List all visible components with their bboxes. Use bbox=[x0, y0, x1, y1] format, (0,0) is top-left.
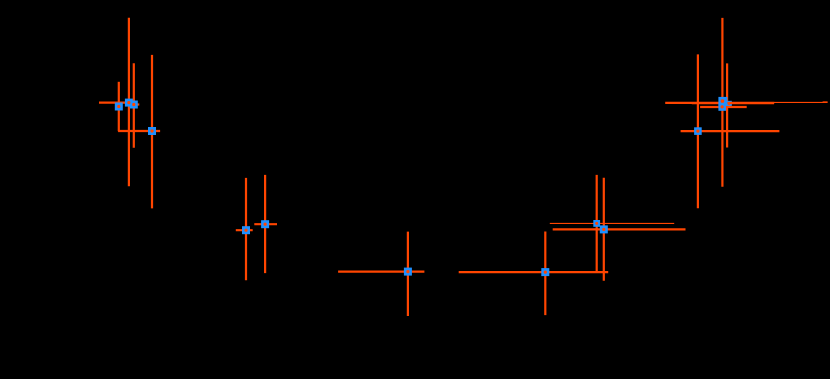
point P2 y-error bbox=[128, 18, 130, 187]
dot P3 bbox=[132, 103, 135, 106]
point P11 y-error bbox=[721, 18, 723, 187]
dot P2 bbox=[127, 101, 130, 104]
dot P7 bbox=[406, 270, 409, 273]
marker P12 square bbox=[718, 103, 726, 111]
point P7 y-error bbox=[407, 232, 409, 316]
point P9 x-error (thin) bbox=[550, 222, 674, 224]
point P1 y-error bbox=[118, 82, 120, 131]
marker P5 square bbox=[242, 226, 250, 234]
dot P14 bbox=[696, 130, 699, 133]
thin-series marker P13 dot bbox=[728, 102, 731, 105]
point P10 y-error bbox=[603, 178, 605, 281]
point P13 x-error right (thin) bbox=[774, 101, 828, 103]
marker P8 square bbox=[541, 268, 549, 276]
point P13 y-error bbox=[726, 63, 728, 147]
point P9 y-error bbox=[596, 175, 598, 272]
point P14 y-error bbox=[697, 54, 699, 208]
dot P10 bbox=[602, 228, 605, 231]
dot P1 bbox=[117, 105, 120, 108]
marker P3 square bbox=[130, 101, 138, 109]
thin-series error bars bbox=[550, 63, 828, 271]
thin-series marker P9 dot bbox=[595, 222, 598, 225]
thin-series marker P9 square bbox=[593, 220, 600, 227]
marker P1 square bbox=[115, 103, 123, 111]
point P11 x-error bbox=[665, 102, 774, 104]
dot P6 bbox=[264, 223, 267, 226]
point P3 y-error bbox=[133, 63, 135, 147]
dot P8 bbox=[544, 271, 547, 274]
marker center dots bbox=[117, 99, 724, 273]
dot P5 bbox=[244, 229, 247, 232]
point P2 x-error bbox=[99, 101, 138, 103]
point P13 x-error end step bbox=[823, 101, 828, 103]
point P6 x-error bbox=[254, 223, 277, 225]
marker P4 square bbox=[148, 127, 156, 135]
marker P2 square bbox=[125, 99, 133, 107]
point P4 y-error bbox=[151, 55, 153, 209]
marker P14 square bbox=[694, 127, 702, 135]
dot P4 bbox=[150, 129, 153, 132]
point P8 x-error bbox=[459, 271, 609, 273]
marker P10 square bbox=[600, 225, 608, 233]
point P5 x-error bbox=[236, 229, 253, 231]
point P6 y-error bbox=[264, 175, 266, 273]
marker P6 square bbox=[261, 220, 269, 228]
point P3 x-error bbox=[129, 103, 140, 105]
main-series error bars bbox=[99, 18, 779, 316]
point P4 x-error bbox=[118, 130, 160, 132]
marker P7 square bbox=[404, 268, 412, 276]
marker P11 big square bbox=[718, 97, 727, 106]
point P7 x-error bbox=[338, 271, 424, 273]
point P8 y-error bbox=[544, 232, 546, 316]
dot P11 bbox=[721, 99, 725, 103]
point P10 x-error bbox=[553, 228, 686, 230]
point P13 x-error left (thin) bbox=[692, 103, 774, 105]
point P12 x-error bbox=[700, 106, 747, 108]
point P5 y-error bbox=[245, 178, 247, 280]
main-series markers bbox=[115, 97, 728, 276]
point P14 x-error bbox=[681, 130, 780, 132]
dot P12 bbox=[721, 105, 724, 108]
thin-series marker P13 square bbox=[726, 101, 732, 107]
